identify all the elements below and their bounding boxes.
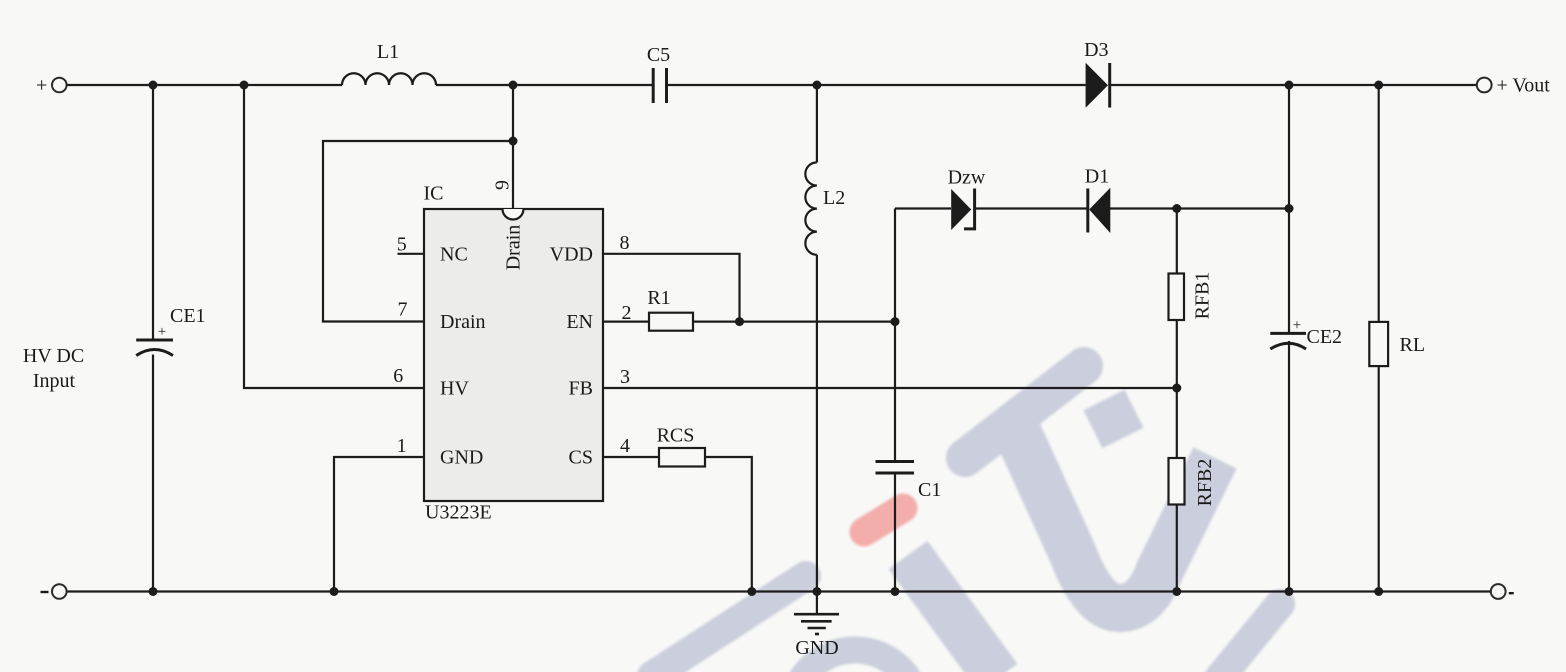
- svg-text:RFB1: RFB1: [1192, 272, 1214, 320]
- svg-text:6: 6: [393, 365, 403, 387]
- svg-text:D1: D1: [1085, 166, 1109, 188]
- svg-text:Dzw: Dzw: [948, 167, 986, 189]
- svg-text:C1: C1: [918, 479, 941, 501]
- svg-text:U3223E: U3223E: [425, 502, 492, 524]
- svg-text:GND: GND: [440, 447, 483, 469]
- svg-text:CS: CS: [569, 447, 593, 469]
- svg-text:EN: EN: [566, 311, 593, 333]
- svg-text:RL: RL: [1400, 334, 1426, 356]
- svg-text:CE1: CE1: [170, 305, 206, 327]
- svg-text:+: +: [158, 324, 166, 340]
- svg-text:D3: D3: [1084, 39, 1108, 61]
- svg-text:3: 3: [620, 366, 630, 388]
- svg-text:+ Vout: + Vout: [1497, 75, 1551, 97]
- svg-text:FB: FB: [569, 377, 593, 399]
- svg-text:9: 9: [492, 180, 514, 190]
- svg-text:4: 4: [620, 435, 630, 457]
- svg-text:Input: Input: [33, 370, 76, 392]
- svg-text:RFB2: RFB2: [1194, 459, 1216, 507]
- svg-text:HV: HV: [440, 377, 469, 399]
- svg-text:L2: L2: [823, 187, 845, 209]
- svg-text:2: 2: [622, 302, 632, 324]
- svg-text:RCS: RCS: [657, 425, 695, 447]
- svg-text:Drain: Drain: [440, 311, 486, 333]
- svg-text:NC: NC: [440, 243, 468, 265]
- svg-text:R1: R1: [647, 287, 670, 309]
- svg-text:7: 7: [398, 299, 408, 321]
- svg-text:+: +: [36, 75, 47, 97]
- svg-text:HV DC: HV DC: [23, 345, 84, 367]
- svg-text:GND: GND: [795, 637, 838, 659]
- svg-text:C5: C5: [647, 44, 670, 66]
- svg-text:L1: L1: [377, 41, 399, 63]
- svg-text:IC: IC: [424, 183, 444, 205]
- svg-text:CE2: CE2: [1307, 326, 1343, 348]
- svg-text:Drain: Drain: [503, 225, 525, 271]
- svg-text:5: 5: [397, 234, 407, 256]
- svg-text:8: 8: [620, 232, 630, 254]
- svg-text:VDD: VDD: [550, 243, 593, 265]
- svg-text:1: 1: [397, 435, 407, 457]
- svg-text:+: +: [1293, 318, 1301, 334]
